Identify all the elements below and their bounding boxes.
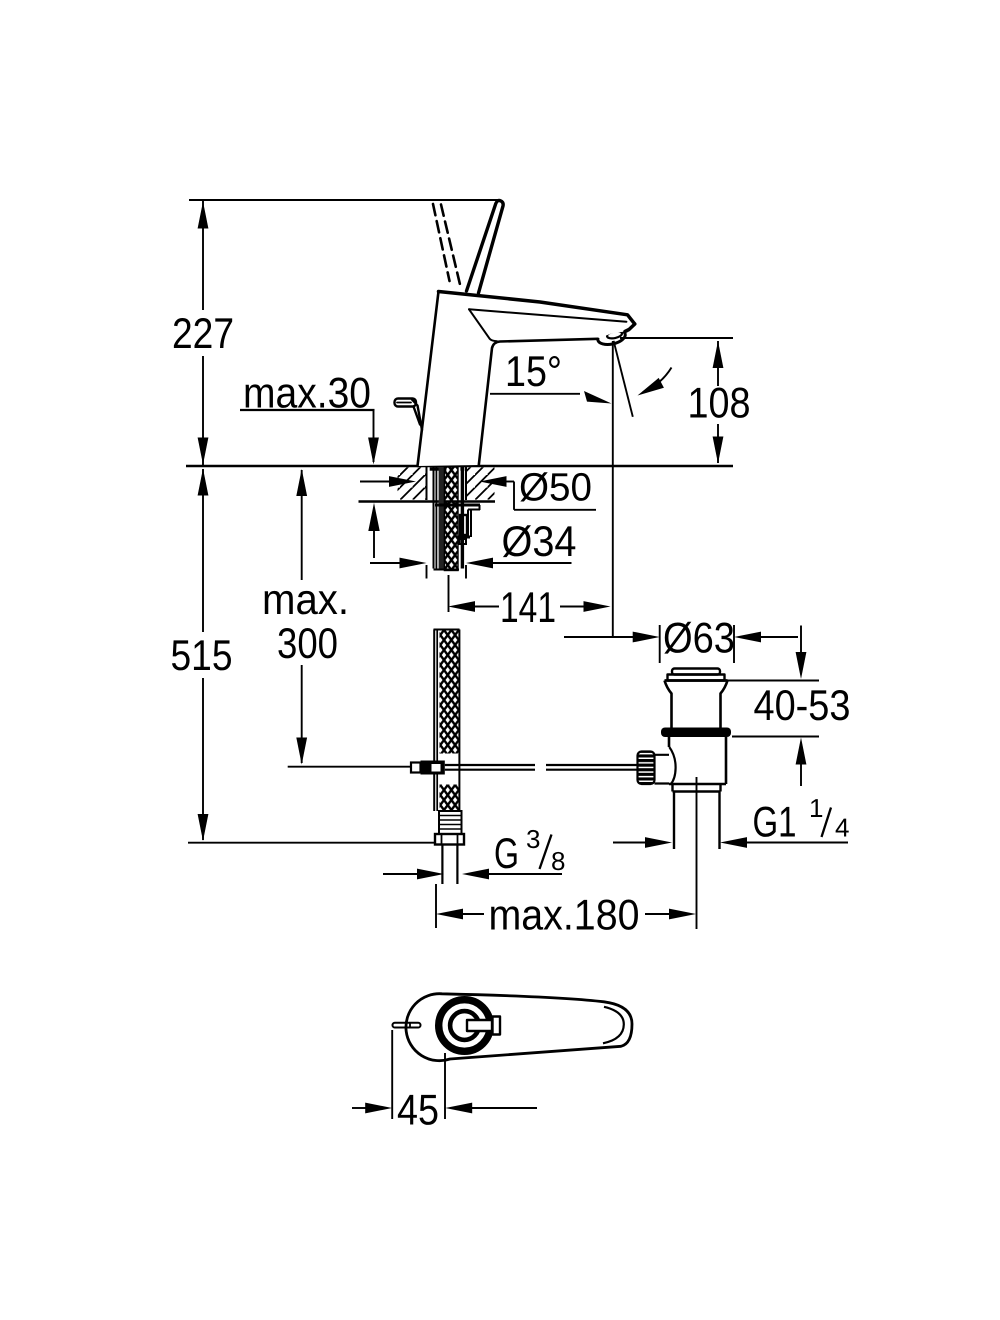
svg-text:40-53: 40-53: [754, 682, 851, 730]
svg-text:45: 45: [397, 1087, 439, 1135]
svg-text:Ø50: Ø50: [519, 466, 592, 510]
svg-text:141: 141: [500, 584, 556, 632]
svg-text:4: 4: [835, 813, 849, 843]
svg-text:max.180: max.180: [489, 892, 640, 940]
svg-text:8: 8: [551, 846, 565, 876]
svg-text:Ø63: Ø63: [663, 615, 735, 663]
svg-text:max.: max.: [262, 576, 349, 624]
svg-text:300: 300: [277, 620, 338, 668]
svg-text:Ø34: Ø34: [502, 518, 577, 566]
svg-text:max.30: max.30: [243, 370, 371, 418]
svg-text:1: 1: [809, 793, 823, 823]
svg-text:15°: 15°: [505, 348, 562, 396]
svg-text:G1: G1: [753, 799, 797, 847]
svg-text:108: 108: [688, 380, 751, 428]
svg-text:227: 227: [172, 310, 234, 358]
svg-text:515: 515: [171, 632, 233, 680]
svg-text:G: G: [494, 830, 519, 878]
svg-text:3: 3: [526, 824, 540, 854]
